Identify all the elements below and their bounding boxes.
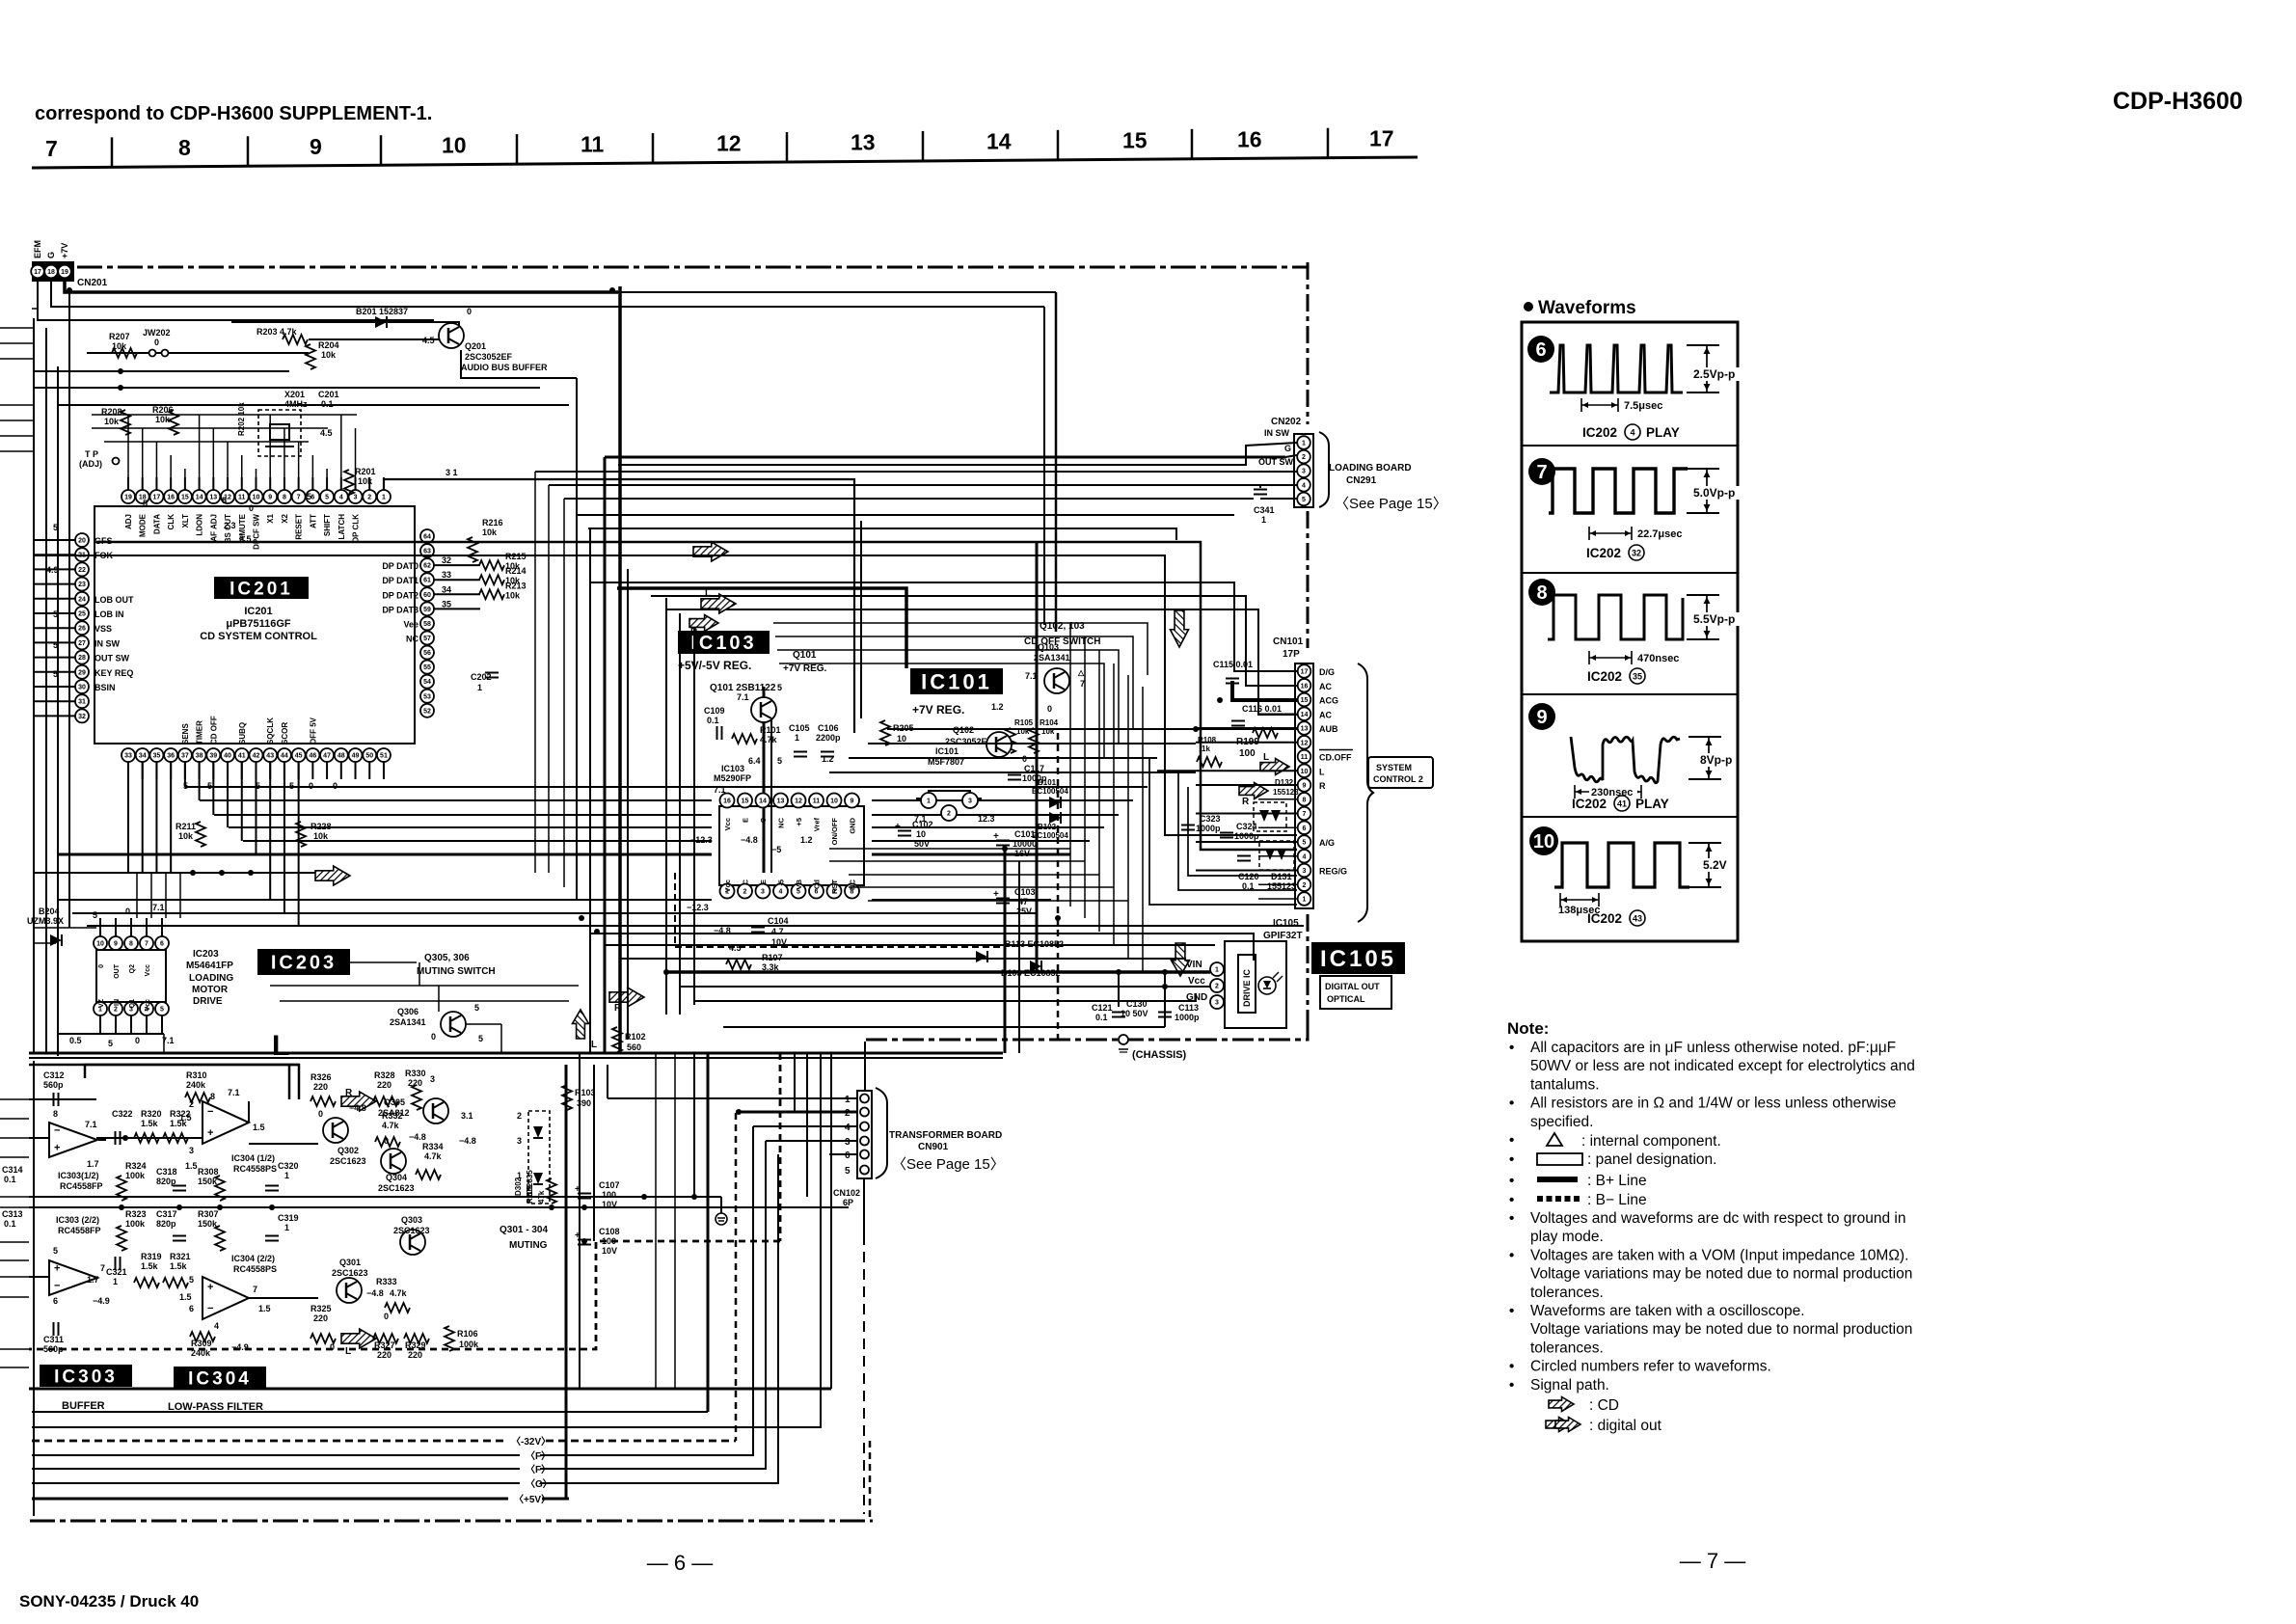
svg-text:2SA1341: 2SA1341 [1034, 653, 1070, 663]
IC201 bottom pin wires [127, 762, 129, 779]
connector CN102 body [857, 1091, 872, 1178]
svg-text:UZM3.9X: UZM3.9X [27, 916, 64, 926]
resistor R106 [445, 1326, 454, 1351]
svg-text:−4.8: −4.8 [741, 835, 758, 845]
svg-text:Signal path.: Signal path. [1530, 1377, 1609, 1394]
svg-text:1.2: 1.2 [822, 754, 834, 764]
thick B+ rail to IC101 [617, 588, 906, 668]
svg-text:AUB: AUB [1319, 724, 1338, 734]
svg-text:10k: 10k [178, 831, 194, 841]
waveform 7 trace [1549, 469, 1688, 513]
svg-text:5: 5 [189, 1275, 194, 1285]
svg-text:220: 220 [377, 1350, 392, 1360]
resistor R205 [880, 720, 890, 745]
note signal path digital out arrow [1546, 1418, 1571, 1432]
svg-text:7: 7 [145, 941, 149, 948]
svg-text:C: C [759, 817, 768, 823]
svg-text:SUBQ: SUBQ [238, 722, 247, 744]
svg-text:10: 10 [897, 734, 906, 744]
waveform 7 voltage bracket 5.0Vp-p [1687, 468, 1719, 470]
svg-text:△: △ [1077, 668, 1085, 677]
svg-text:10k: 10k [313, 831, 329, 841]
signal arrow CD top [693, 542, 728, 561]
svg-text:1: 1 [477, 683, 482, 692]
svg-text:RC4558PS: RC4558PS [233, 1164, 277, 1174]
svg-text:2: 2 [743, 889, 747, 896]
svg-text:LOADING: LOADING [189, 973, 233, 984]
svg-text:tolerances.: tolerances. [1530, 1340, 1604, 1356]
svg-text:16: 16 [167, 495, 175, 501]
svg-text:: panel designation.: : panel designation. [1587, 1151, 1716, 1168]
svg-text:CD OFF SWITCH: CD OFF SWITCH [1024, 636, 1100, 647]
chassis ground node [1119, 1035, 1128, 1044]
svg-text:29: 29 [78, 669, 86, 676]
svg-text:R203 4.7k: R203 4.7k [257, 327, 298, 337]
svg-text:C341: C341 [1254, 505, 1275, 515]
waveform 7 number [1528, 458, 1555, 485]
svg-text:1: 1 [845, 1095, 851, 1105]
svg-text:: B+ Line: : B+ Line [1587, 1173, 1647, 1189]
svg-text:4: 4 [845, 1123, 851, 1133]
svg-text:AC: AC [1319, 682, 1332, 691]
svg-text:59: 59 [423, 607, 431, 613]
svg-text:9: 9 [1303, 783, 1307, 790]
svg-text:All capacitors are in μF unles: All capacitors are in μF unless otherwis… [1530, 1040, 1896, 1056]
svg-text:+7V: +7V [60, 243, 69, 258]
svg-text:R330: R330 [405, 1069, 426, 1078]
thick vertical x1075 [1036, 542, 1039, 972]
waveform 8 time 470nsec [1589, 657, 1632, 659]
svg-text:50V: 50V [914, 839, 930, 849]
svg-text:1.2: 1.2 [991, 702, 1004, 712]
svg-text:17: 17 [1369, 125, 1394, 150]
svg-text:17P: 17P [1283, 649, 1300, 660]
resistor R102 [612, 1027, 622, 1052]
svg-text:OFF 5V: OFF 5V [309, 717, 317, 744]
op-amp IC303(1/2) [49, 1123, 97, 1157]
svg-text:Q301 - 304: Q301 - 304 [500, 1225, 548, 1235]
svg-text:0: 0 [467, 307, 472, 316]
wire rails with corners into CN101 area [96, 542, 1297, 850]
svg-text:6: 6 [53, 1296, 58, 1306]
svg-text:C321: C321 [106, 1267, 127, 1277]
svg-text:7: 7 [253, 1285, 257, 1294]
svg-text:56: 56 [423, 650, 431, 657]
svg-text:0: 0 [318, 1109, 323, 1119]
svg-text:5: 5 [1303, 840, 1307, 847]
svg-text:R333: R333 [376, 1277, 397, 1286]
svg-text:4.7: 4.7 [771, 927, 784, 936]
svg-text:9: 9 [114, 941, 118, 948]
svg-text:0: 0 [1047, 704, 1052, 714]
svg-text:•: • [1509, 1210, 1514, 1227]
svg-text:+5: +5 [795, 818, 803, 826]
svg-text:4.5: 4.5 [320, 428, 333, 438]
svg-text:14: 14 [759, 798, 767, 805]
svg-text:2: 2 [517, 1111, 522, 1121]
svg-text:5.2V: 5.2V [1703, 858, 1727, 872]
svg-text:820p: 820p [156, 1219, 176, 1229]
svg-text:DP CLK: DP CLK [352, 514, 361, 543]
svg-text:−4.8: −4.8 [409, 1132, 426, 1142]
svg-text:〈F〉: 〈F〉 [526, 1463, 551, 1475]
svg-text:NC: NC [777, 817, 786, 827]
svg-text:10: 10 [830, 798, 838, 805]
svg-text:Q303: Q303 [401, 1215, 422, 1225]
svg-text:R105: R105 [1014, 718, 1034, 727]
svg-text:B102: B102 [1038, 823, 1057, 831]
svg-text:46: 46 [309, 753, 316, 760]
svg-text:VB: VB [795, 879, 803, 889]
svg-text:R: R [345, 1088, 353, 1098]
svg-text:5: 5 [53, 1246, 58, 1256]
svg-text:IC303 (2/2): IC303 (2/2) [56, 1215, 99, 1225]
svg-text:4: 4 [1630, 428, 1634, 438]
svg-text:34: 34 [442, 584, 451, 594]
IC101 regulator body [916, 791, 982, 798]
svg-text:Q101: Q101 [793, 650, 817, 661]
wire opamp row1 [96, 1137, 203, 1139]
svg-text:41: 41 [238, 753, 246, 760]
svg-text:: CD: : CD [1589, 1397, 1619, 1414]
svg-text:1.5k: 1.5k [141, 1119, 159, 1128]
audio bottom rail C [32, 1053, 821, 1427]
transformer board bracket [876, 1088, 887, 1178]
svg-text:C201: C201 [318, 390, 339, 399]
svg-text:30: 30 [78, 685, 86, 691]
svg-text:6P: 6P [843, 1198, 853, 1207]
svg-text:35: 35 [442, 599, 451, 609]
svg-text:40: 40 [224, 753, 231, 760]
svg-text:R319: R319 [141, 1252, 162, 1261]
svg-text:240k: 240k [186, 1080, 206, 1090]
svg-text:470nsec: 470nsec [1637, 653, 1679, 664]
svg-text:61: 61 [423, 578, 431, 584]
svg-text:0.1: 0.1 [4, 1219, 16, 1229]
thick verticals left of IC103 [763, 687, 766, 873]
svg-text:1.5k: 1.5k [141, 1261, 159, 1271]
svg-text:64: 64 [423, 534, 431, 541]
svg-text:+5V/-5V REG.: +5V/-5V REG. [678, 659, 751, 672]
svg-text:45: 45 [295, 753, 303, 760]
svg-text:1.5: 1.5 [179, 1292, 192, 1302]
svg-text:1: 1 [1303, 897, 1307, 904]
transistor Q101 [751, 697, 776, 722]
svg-text:Waveforms are taken with a osc: Waveforms are taken with a oscilloscope. [1530, 1303, 1805, 1319]
transistor Q302 [323, 1118, 348, 1143]
svg-text:53: 53 [423, 693, 431, 700]
svg-text:2SC3052EF: 2SC3052EF [465, 352, 513, 362]
wire top rail 3 [38, 279, 434, 320]
svg-text:CN102: CN102 [833, 1188, 860, 1198]
svg-text:GND: GND [849, 817, 857, 833]
svg-text:L: L [705, 588, 711, 599]
svg-text:EFM: EFM [33, 240, 42, 258]
svg-text:IC304 (2/2): IC304 (2/2) [231, 1254, 275, 1263]
svg-text:2SC1623: 2SC1623 [330, 1156, 366, 1166]
svg-text:R109: R109 [526, 1184, 534, 1204]
svg-text:B101: B101 [1038, 778, 1057, 787]
svg-text:VSS: VSS [95, 624, 112, 634]
svg-text:R106: R106 [457, 1329, 478, 1339]
svg-text:tantalums.: tantalums. [1530, 1076, 1600, 1093]
wire rail y632 [665, 609, 1297, 715]
svg-text:OUT: OUT [114, 963, 121, 979]
svg-text:Q306: Q306 [397, 1007, 419, 1016]
svg-text:17: 17 [1301, 669, 1309, 676]
svg-text:55: 55 [423, 664, 431, 671]
svg-text:C318: C318 [156, 1167, 177, 1177]
svg-text:17: 17 [153, 495, 161, 501]
svg-text:10: 10 [1301, 769, 1309, 775]
long rail above audio [29, 1064, 299, 1067]
svg-text:3: 3 [1302, 469, 1306, 475]
svg-text:16: 16 [1237, 126, 1262, 151]
svg-text:DRIVE IC: DRIVE IC [1242, 968, 1252, 1007]
svg-text:8: 8 [129, 941, 133, 948]
svg-text:C105: C105 [789, 723, 810, 733]
svg-text:20: 20 [78, 538, 86, 545]
dashed vertical right of rails [869, 1441, 872, 1521]
IC201 left pin wires [34, 539, 75, 541]
svg-text:4.7k: 4.7k [382, 1121, 400, 1130]
audio left stubs [0, 1098, 29, 1100]
svg-text:DP DAT3: DP DAT3 [382, 605, 419, 614]
op-amp IC304(2/2) [203, 1277, 249, 1319]
svg-text:63: 63 [423, 549, 431, 555]
IC203 bottom pins [94, 1002, 107, 1015]
svg-text:LDON: LDON [196, 514, 204, 536]
svg-text:IC201: IC201 [230, 579, 293, 599]
svg-text:5: 5 [1302, 497, 1306, 503]
svg-text:2.5Vp-p: 2.5Vp-p [1693, 367, 1735, 381]
top rail corners down mid [1055, 292, 1058, 632]
svg-text:13: 13 [1301, 726, 1309, 733]
svg-text:L: L [591, 1040, 597, 1050]
svg-text:〈-32V〉: 〈-32V〉 [511, 1435, 551, 1448]
svg-text:7.1: 7.1 [228, 1088, 240, 1097]
wire long rail y534 [577, 514, 1234, 516]
svg-text:5: 5 [160, 1007, 164, 1014]
svg-text:6: 6 [189, 1304, 194, 1313]
svg-text:OUT SW: OUT SW [95, 654, 130, 663]
svg-text:−: − [207, 1106, 213, 1118]
svg-text:4: 4 [1302, 482, 1306, 489]
svg-text:32: 32 [78, 714, 86, 720]
svg-text:CLK: CLK [167, 514, 176, 530]
svg-text:12: 12 [1301, 740, 1309, 746]
transistor Q301 [337, 1278, 362, 1303]
IC304 label box [174, 1367, 266, 1389]
svg-text:3: 3 [1215, 1000, 1219, 1007]
svg-text:0: 0 [135, 1036, 140, 1045]
svg-text:2200p: 2200p [816, 733, 841, 743]
svg-text:7.1: 7.1 [152, 903, 165, 912]
svg-text:IC101: IC101 [921, 669, 992, 693]
Q201 collector wire [405, 322, 459, 326]
svg-text:Q305: Q305 [384, 1097, 405, 1107]
svg-text:6: 6 [1535, 339, 1546, 361]
svg-text:•: • [1509, 1247, 1514, 1263]
junction dots [67, 287, 72, 293]
svg-text:15: 15 [1301, 697, 1309, 704]
signal arrow R right [1239, 783, 1268, 799]
svg-text:R324: R324 [125, 1161, 147, 1171]
wire verticals right-mid descending [1004, 849, 1007, 1053]
svg-text:10: 10 [253, 495, 260, 501]
svg-text:Q2: Q2 [129, 964, 136, 973]
svg-text:C120: C120 [1238, 872, 1259, 881]
svg-text:C319: C319 [278, 1213, 299, 1223]
transistor Q201 [439, 323, 464, 348]
waveform 6 time 7.5usec [1581, 404, 1618, 406]
waveform 9 time 230nsec [1575, 791, 1641, 793]
svg-text:R325: R325 [311, 1304, 332, 1313]
svg-text:R201: R201 [355, 467, 376, 476]
svg-text:MUTING: MUTING [509, 1240, 548, 1251]
svg-text:C312: C312 [43, 1070, 65, 1080]
svg-text:〈See Page 15〉: 〈See Page 15〉 [892, 1156, 1005, 1173]
svg-text:7: 7 [297, 495, 301, 501]
svg-text:0: 0 [431, 1032, 436, 1042]
wire bottom bundle verticals [565, 1065, 568, 1499]
svg-text:23: 23 [78, 582, 86, 588]
power rail -32V dashed [32, 1440, 736, 1443]
svg-text:C324: C324 [1236, 822, 1257, 831]
svg-text:5: 5 [478, 1034, 483, 1043]
svg-text:0: 0 [309, 781, 313, 791]
audio section frame wires [29, 1098, 96, 1100]
signal path arrow L up [573, 1010, 589, 1039]
svg-text:•: • [1509, 1192, 1514, 1208]
waveform 9 trace (noisy) [1571, 737, 1680, 783]
svg-text:PLAY: PLAY [1646, 425, 1680, 440]
svg-text:4.7k: 4.7k [424, 1151, 443, 1161]
svg-text:play mode.: play mode. [1530, 1229, 1604, 1245]
svg-text:12: 12 [795, 798, 802, 805]
svg-text:G: G [46, 252, 56, 258]
svg-text:2SC1623: 2SC1623 [332, 1268, 368, 1278]
capacitor small near C120 [1237, 855, 1251, 857]
svg-text:RC4558FP: RC4558FP [58, 1226, 101, 1235]
ground symbol audio [716, 1213, 727, 1225]
svg-text:R308: R308 [198, 1167, 219, 1177]
svg-text:10k: 10k [482, 528, 498, 537]
capacitor C341 [1254, 489, 1267, 491]
wire top rail 2 [51, 279, 1044, 307]
svg-text:3.1: 3.1 [461, 1111, 473, 1121]
connector CN101 body [1295, 663, 1313, 908]
resistor R103 [562, 1085, 572, 1110]
svg-text:C313: C313 [2, 1209, 23, 1219]
signal path arrow R mid [609, 988, 644, 1007]
svg-text:6: 6 [1303, 826, 1307, 832]
svg-text:5: 5 [53, 640, 58, 650]
svg-text:1.5k: 1.5k [170, 1119, 188, 1128]
svg-text:X201: X201 [284, 390, 305, 399]
svg-text:57: 57 [423, 636, 431, 642]
down arrow near IC105 [1172, 943, 1190, 976]
svg-text:SCOR: SCOR [281, 722, 289, 744]
svg-text:26: 26 [78, 626, 86, 633]
svg-text:CN291: CN291 [1346, 475, 1377, 486]
svg-text:C108: C108 [599, 1227, 620, 1236]
svg-text:10V: 10V [602, 1246, 617, 1256]
svg-text:R321: R321 [170, 1252, 191, 1261]
svg-text:: B− Line: : B− Line [1587, 1192, 1647, 1208]
waveform 6 trace [1550, 345, 1683, 392]
svg-text:Voltages and waveforms are dc: Voltages and waveforms are dc with respe… [1530, 1210, 1905, 1227]
svg-text:50WV or less are not indicated: 50WV or less are not indicated except fo… [1530, 1058, 1915, 1074]
svg-text:IC101: IC101 [935, 746, 959, 756]
svg-text:+: + [993, 831, 999, 842]
wire audio junction rail [29, 1196, 692, 1198]
IC201 bottom bus verticals [127, 762, 129, 873]
svg-text:43: 43 [266, 753, 274, 760]
power rail +5V thick [32, 1498, 569, 1501]
svg-text:34: 34 [139, 753, 147, 760]
svg-text:RC4558FP: RC4558FP [60, 1181, 103, 1191]
svg-text:+: + [895, 822, 901, 832]
svg-text:ADJ: ADJ [124, 514, 133, 529]
svg-text:−: − [207, 1303, 213, 1314]
waveform 8 voltage bracket 5.5Vp-p [1687, 594, 1719, 596]
svg-text:9: 9 [268, 495, 272, 501]
wire rail y618 [651, 596, 1297, 686]
svg-text:17: 17 [34, 269, 41, 276]
svg-text:C322: C322 [112, 1109, 133, 1119]
svg-text:36: 36 [167, 753, 175, 760]
svg-text:VZ: VZ [98, 998, 105, 1008]
svg-text:9: 9 [310, 134, 322, 159]
svg-text:R328: R328 [374, 1070, 395, 1080]
IC201 body [95, 506, 415, 744]
svg-text:(CHASSIS): (CHASSIS) [1132, 1049, 1187, 1061]
svg-text:C314: C314 [2, 1165, 23, 1175]
svg-text:CD OFF: CD OFF [209, 716, 218, 744]
svg-text:7: 7 [45, 136, 58, 161]
svg-text:C109: C109 [704, 706, 725, 716]
IC201 top pin wires [127, 477, 129, 490]
Q201 emitter net corner [461, 350, 577, 378]
svg-text:−12.3: −12.3 [687, 903, 709, 912]
waveforms panel title [1524, 302, 1533, 311]
svg-text:7.1: 7.1 [737, 692, 749, 702]
svg-text:38: 38 [196, 753, 203, 760]
svg-text:Waveforms: Waveforms [1538, 298, 1636, 318]
svg-text:R214: R214 [505, 566, 527, 576]
svg-text:3: 3 [189, 1146, 194, 1155]
svg-text:1: 1 [382, 495, 386, 501]
svg-text:1.2: 1.2 [800, 835, 813, 845]
svg-text:220: 220 [377, 1080, 392, 1090]
svg-text:R104: R104 [1040, 718, 1059, 727]
svg-text:R320: R320 [141, 1109, 162, 1119]
wire rail upper-left 1 [34, 370, 289, 372]
svg-text:MOTOR: MOTOR [192, 985, 229, 995]
svg-text:D/G: D/G [1319, 667, 1335, 677]
svg-text:9: 9 [1536, 707, 1547, 728]
svg-text:R101: R101 [760, 725, 781, 735]
svg-text:2: 2 [1215, 984, 1219, 990]
svg-text:B201 152837: B201 152837 [356, 307, 408, 316]
svg-text:5: 5 [108, 1039, 113, 1048]
svg-text:62: 62 [423, 563, 431, 570]
svg-text:X2: X2 [281, 513, 289, 523]
svg-text:7.1: 7.1 [1025, 671, 1038, 681]
svg-text:Vref: Vref [813, 818, 822, 832]
IC201 right pin col [420, 529, 434, 543]
